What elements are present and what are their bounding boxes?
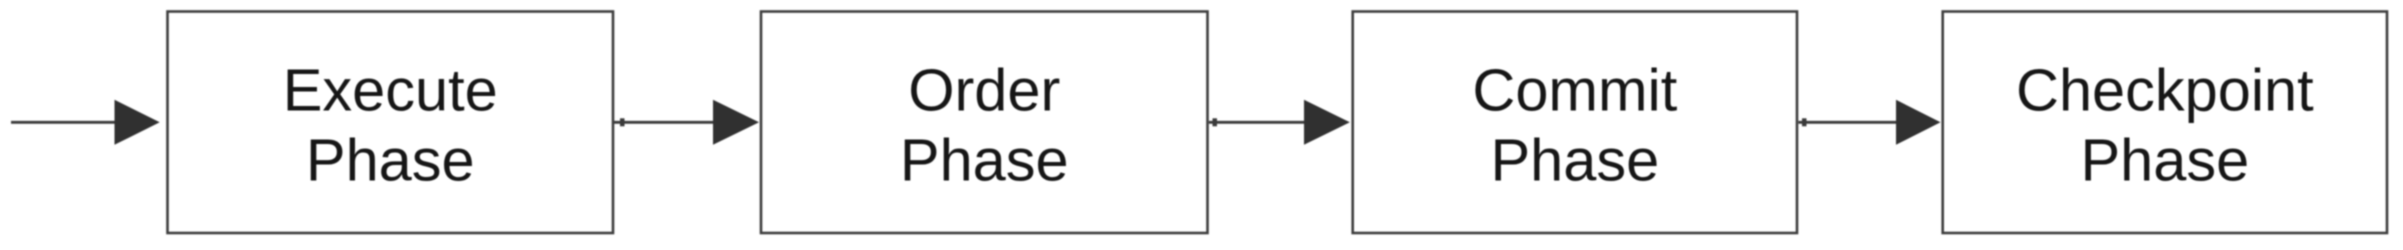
svg-text:Phase: Phase <box>1490 127 1659 194</box>
svg-text:Phase: Phase <box>306 127 475 194</box>
svg-text:Checkpoint: Checkpoint <box>2016 57 2314 124</box>
svg-text:Commit: Commit <box>1472 57 1677 124</box>
svg-text:Order: Order <box>908 57 1060 124</box>
svg-text:Execute: Execute <box>283 57 498 124</box>
svg-text:Phase: Phase <box>2080 127 2249 194</box>
svg-text:Phase: Phase <box>900 127 1069 194</box>
